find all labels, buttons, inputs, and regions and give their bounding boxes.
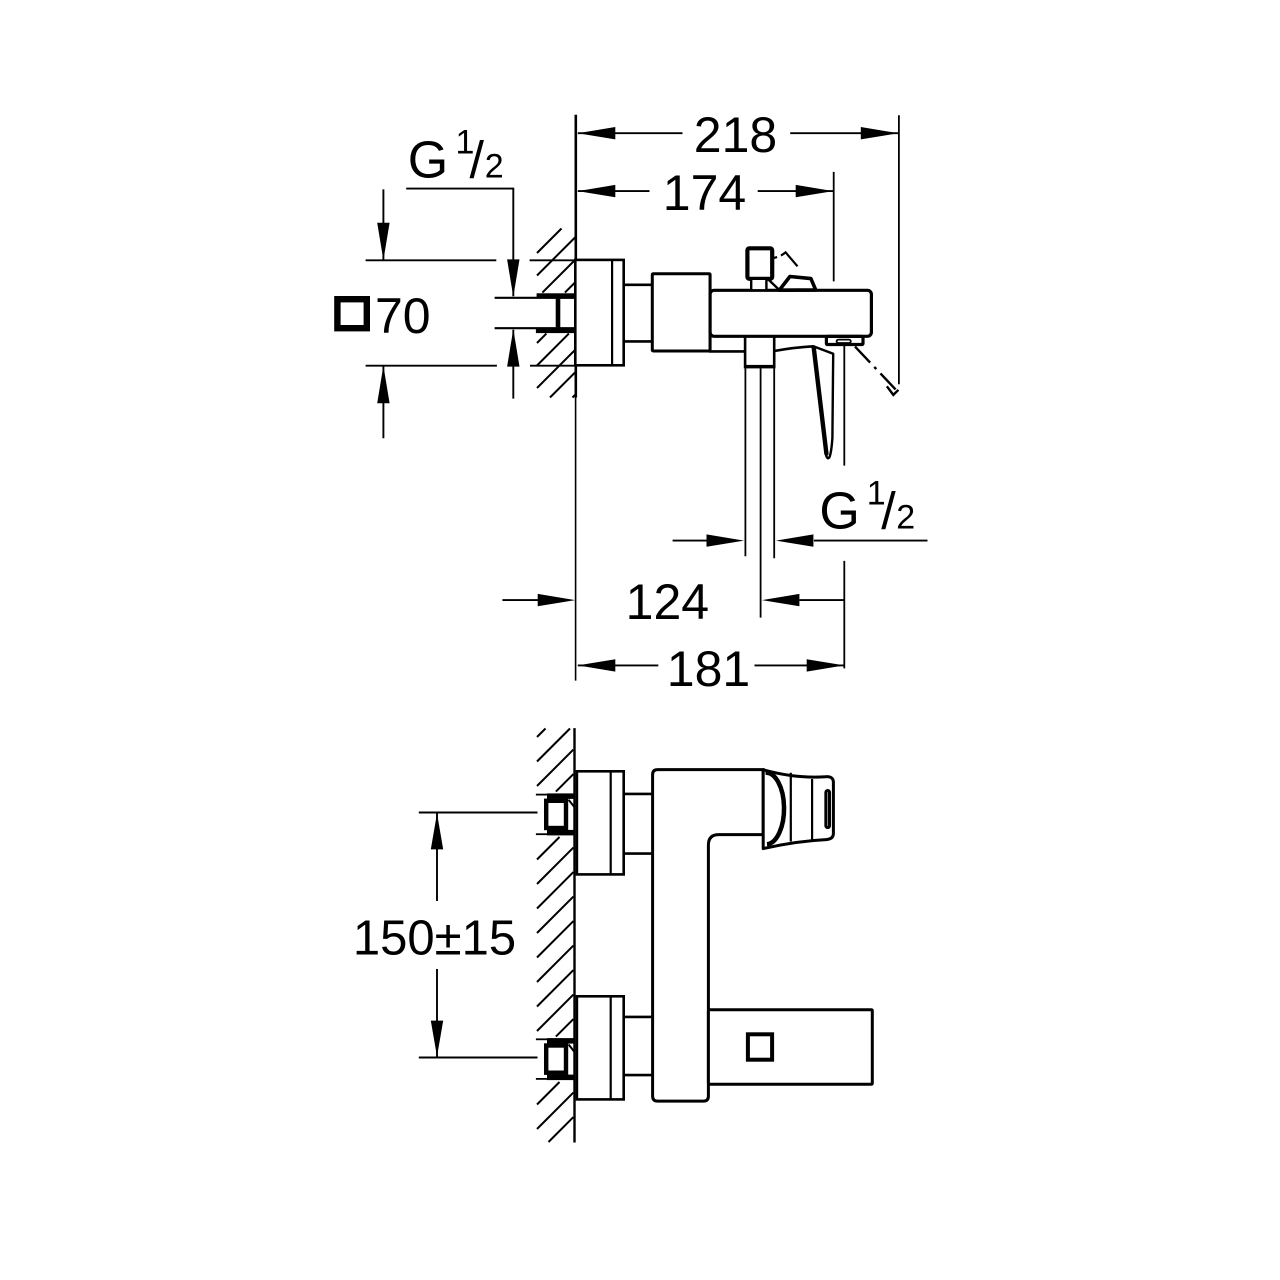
svg-text:G: G [819,482,859,540]
70 extension lines [366,259,497,261]
svg-text:/: / [470,132,485,190]
dimension 218 [578,132,683,134]
escutcheon lip line [611,260,613,365]
handle dome arc [766,773,785,844]
shower outlet (below bar) [744,336,747,365]
G 1/2 leader (top) [406,188,514,190]
dimension 70 [382,189,384,260]
dimension G 1/2 (bottom, outlet thread) [673,540,707,542]
lever closed (on top of bar) [779,277,815,291]
pipe connector thick bands [537,293,576,298]
supply pipe in wall [495,297,575,299]
body underside extension [709,350,745,353]
valve body (top view) [652,274,710,351]
notch diagonal [769,280,779,290]
diverter square [748,1034,772,1059]
spout underside detail [826,336,863,344]
G 1/2 label (top left) [408,124,504,190]
upper escutcheon (front) [577,771,624,874]
neck (top view) [624,283,653,286]
connector nut bar [556,299,561,328]
body (front view) [653,770,764,1102]
wall hatching (bottom view) [537,729,573,1143]
dimension 150±15 [419,812,538,814]
lower inlet socket [536,1038,547,1040]
handle division lines [790,773,792,842]
svg-text:181: 181 [667,641,750,697]
under-bar cover curve [775,346,813,351]
upper neck [624,793,653,796]
svg-text:124: 124 [626,574,709,630]
svg-text:2: 2 [485,148,504,186]
dimension 124 [502,599,540,601]
svg-text:G: G [408,132,448,190]
handle slot [826,791,830,828]
escutcheon (top view) [575,260,623,365]
svg-text:70: 70 [375,288,431,344]
handle cap (front view) [763,770,833,849]
wall hatching (top view) [537,229,576,398]
lever open-position dashed diagonal [855,347,896,391]
aerator [837,340,851,343]
spout (front view) [708,1010,872,1085]
svg-text:174: 174 [663,165,746,221]
svg-text:2: 2 [896,498,915,536]
svg-text:150±15: 150±15 [353,912,516,966]
square-profile symbol [337,299,366,328]
svg-text:/: / [881,482,896,540]
lever raised dash mark [772,257,777,258]
extension line 174 [833,172,835,282]
cartridge stem [747,248,772,278]
svg-text:218: 218 [694,107,777,163]
lever open (pointing down) [813,346,833,458]
body right edge through bar [709,274,712,351]
outlet thread extension lines [744,368,746,556]
lower neck [624,1016,653,1019]
wall line (top view) [574,115,577,398]
extension line 181 [843,345,845,465]
extension line 218 [898,115,900,384]
wall line (bottom view) [573,728,575,1142]
dimension 174 [578,190,650,192]
stem base [751,279,766,291]
spout bar (top view) [710,290,871,336]
lower escutcheon (front) [577,996,624,1099]
upper inlet socket [536,794,547,796]
dimension 181 [578,664,659,666]
